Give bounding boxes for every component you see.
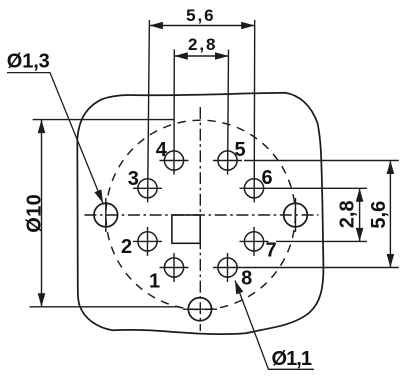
arrow O10 up — [38, 120, 46, 134]
O10 top ext line — [33, 119, 174, 121]
pin 8 circle — [218, 258, 237, 277]
pin 8 v-tick — [227, 253, 229, 282]
svg-text:4: 4 — [156, 139, 168, 161]
right ext line pin7 row — [276, 240, 367, 242]
pin 6 h-tick — [240, 187, 269, 189]
arrow right 2,8 down — [356, 228, 364, 242]
arrow right 5,6 up — [387, 161, 395, 175]
svg-text:5,6: 5,6 — [186, 6, 216, 25]
svg-text:3: 3 — [128, 168, 139, 190]
pin 2 v-tick — [147, 227, 149, 256]
top dim 2,8 line — [174, 55, 228, 57]
hole left vertical tick — [105, 198, 107, 232]
pin 7 circle — [244, 232, 263, 251]
arrow right 2,8 up — [356, 188, 364, 202]
pin 1 circle — [164, 258, 183, 277]
left dim O10 line — [41, 120, 43, 307]
O10 bottom ext line — [30, 306, 178, 308]
right dim 5,6 line — [389, 161, 391, 268]
pin 5 h-tick — [213, 160, 242, 162]
top dim 2,8 right ext line (through pin 5) — [227, 50, 230, 175]
top dim 5,6 left ext line (through pin 3) — [148, 20, 150, 202]
pitch circle O10 (dashed) — [106, 120, 295, 309]
pin 7 h-tick — [240, 240, 269, 242]
horizontal centerline — [85, 214, 319, 216]
hole bottom horizontal tick — [183, 308, 217, 310]
hole left (O1,3) — [94, 203, 118, 227]
pin 6 circle — [244, 179, 263, 198]
center keyway square — [172, 215, 200, 243]
right ext line pin8 row — [242, 267, 399, 269]
pin 5 circle — [218, 151, 237, 170]
top dim 2,8 left ext line (through pin 4) — [173, 50, 175, 175]
svg-text:6: 6 — [262, 167, 273, 189]
pin 2 circle — [138, 232, 157, 251]
pin 7 v-tick — [253, 227, 255, 256]
svg-text:1: 1 — [149, 271, 160, 293]
leader O1,3 — [7, 73, 103, 204]
top dim 5,6 right ext line (through pin 6) — [253, 20, 256, 202]
hole right — [284, 203, 308, 227]
vertical centerline — [199, 107, 201, 331]
arrow O10 down — [38, 293, 46, 307]
pin 4 circle — [164, 151, 183, 170]
arrow leader O1,3 — [94, 189, 103, 203]
arrow top 2,8 right — [215, 52, 229, 60]
arrow leader O1,1 — [235, 281, 243, 295]
svg-text:5: 5 — [234, 139, 245, 161]
svg-text:2: 2 — [121, 236, 132, 258]
pin 3 circle — [138, 179, 157, 198]
top dim 5,6 line — [149, 25, 254, 27]
arrow right 5,6 down — [387, 254, 395, 268]
svg-text:2,8: 2,8 — [337, 200, 359, 228]
right dim 2,8 line — [359, 188, 361, 241]
arrow top 5,6 left — [149, 22, 163, 30]
svg-text:7: 7 — [265, 240, 276, 262]
svg-text:Ø1,3: Ø1,3 — [7, 51, 50, 73]
svg-text:Ø10: Ø10 — [23, 194, 45, 233]
pin 8 h-tick — [213, 267, 242, 269]
right ext line pin5 row — [244, 160, 399, 162]
svg-text:5,6: 5,6 — [368, 201, 390, 229]
svg-text:2,8: 2,8 — [188, 35, 218, 54]
svg-text:Ø1,1: Ø1,1 — [272, 348, 313, 370]
right ext line pin6 row — [269, 187, 368, 189]
pin 1 v-tick — [173, 253, 175, 282]
connector body outline — [77, 93, 323, 334]
hole right vertical tick — [295, 198, 297, 232]
arrow top 2,8 left — [174, 52, 188, 60]
pin 4 h-tick — [160, 160, 189, 162]
pin 3 h-tick — [133, 187, 162, 189]
leader O1,1 — [235, 281, 314, 370]
pin 2 h-tick — [133, 240, 162, 242]
hole bottom — [188, 298, 211, 321]
svg-text:8: 8 — [241, 267, 252, 289]
arrow top 5,6 right — [241, 22, 255, 30]
pin 1 h-tick — [160, 267, 189, 269]
